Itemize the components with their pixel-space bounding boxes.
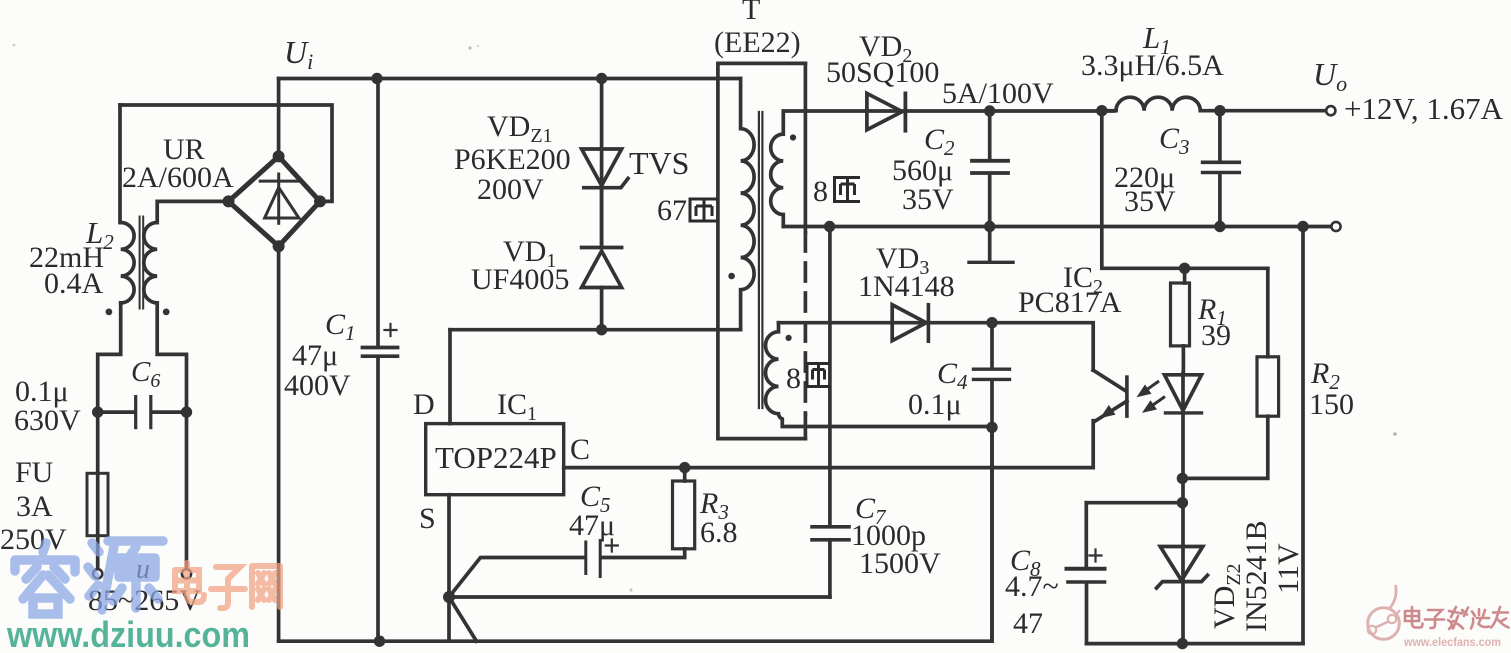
svg-text:400V: 400V bbox=[284, 369, 351, 402]
light arrow 1 bbox=[1142, 381, 1159, 393]
terminal AC input N bbox=[182, 569, 191, 578]
svg-text:3.3μH/6.5A: 3.3μH/6.5A bbox=[1081, 49, 1224, 82]
phototransistor Q IC2 bbox=[1093, 370, 1125, 390]
junction R3 top node bbox=[679, 462, 690, 473]
phase dot secondary 1 bbox=[790, 134, 796, 140]
fuse FU bbox=[96, 412, 100, 473]
svg-text:D: D bbox=[413, 388, 435, 421]
resistor R1 bbox=[1183, 268, 1187, 283]
watermark 网 bbox=[252, 566, 280, 607]
phase dot L2 left bbox=[106, 309, 113, 316]
svg-text:1N4148: 1N4148 bbox=[858, 270, 955, 303]
inductor L1 bbox=[1116, 97, 1200, 111]
svg-text:47: 47 bbox=[1013, 607, 1043, 640]
svg-text:P6KE200: P6KE200 bbox=[454, 143, 571, 176]
terminal AC input L bbox=[93, 569, 102, 578]
junction C8 top node bbox=[1177, 497, 1188, 508]
watermark 电 bbox=[175, 563, 204, 602]
capacitor C5 bbox=[584, 542, 587, 574]
junction C1 top node bbox=[371, 73, 382, 84]
junction R1 top node bbox=[1179, 263, 1190, 274]
svg-text:50SQ100: 50SQ100 bbox=[826, 56, 939, 89]
capacitor C3 bbox=[1218, 111, 1222, 161]
wire L2 right down to C6 node bbox=[157, 303, 186, 412]
svg-text:TOP224P: TOP224P bbox=[435, 440, 557, 475]
inductor L2 left winding bbox=[121, 223, 134, 303]
svg-text:T: T bbox=[742, 0, 760, 26]
junction R2 bottom node bbox=[1177, 473, 1188, 484]
optocoupler LED bbox=[1165, 375, 1202, 411]
capacitor C4 bbox=[990, 323, 994, 368]
svg-text:4.7~: 4.7~ bbox=[1005, 570, 1059, 603]
wire L2 left down to C6 node bbox=[98, 303, 121, 412]
svg-text:250V: 250V bbox=[0, 523, 67, 556]
light arrow 2 bbox=[1148, 397, 1165, 409]
junction C4 bottom node bbox=[986, 422, 997, 433]
wire secondary lower rail bbox=[783, 225, 1303, 229]
svg-text:8: 8 bbox=[813, 175, 828, 208]
capacitor C6 bbox=[98, 410, 134, 414]
svg-text:35V: 35V bbox=[902, 183, 954, 216]
watermark 源 bbox=[88, 541, 163, 610]
transformer T outline bbox=[718, 63, 806, 438]
svg-text:200V: 200V bbox=[477, 173, 544, 206]
wire input rect top bbox=[120, 105, 332, 201]
wire D pin riser bbox=[448, 330, 452, 424]
terminal output + bbox=[1326, 106, 1335, 115]
TVS diode VDZ1 bbox=[582, 149, 622, 186]
svg-text:(EE22): (EE22) bbox=[714, 26, 801, 59]
L2 core bbox=[139, 217, 141, 309]
wire S pin riser bbox=[447, 495, 451, 642]
svg-text:150: 150 bbox=[1309, 388, 1354, 421]
wire left vertex to L2 right winding bbox=[157, 201, 228, 222]
svg-text:TVS: TVS bbox=[629, 145, 689, 181]
svg-text:67: 67 bbox=[657, 194, 687, 227]
wire S diagonal to bottom rail bbox=[449, 597, 477, 641]
junction C3 bottom node bbox=[1214, 221, 1225, 232]
junction output return node bbox=[1297, 221, 1308, 232]
svg-text:47μ: 47μ bbox=[292, 339, 338, 372]
svg-text:www.elecfans.com: www.elecfans.com bbox=[1403, 635, 1501, 649]
capacitor C2 bbox=[988, 111, 992, 159]
svg-text:UF4005: UF4005 bbox=[471, 263, 569, 296]
inductor L2 right winding bbox=[144, 223, 157, 303]
junction feedback tap node bbox=[1096, 105, 1107, 116]
svg-text:+12V, 1.67A: +12V, 1.67A bbox=[1344, 91, 1504, 126]
wire VDZ1 branch riser bbox=[600, 79, 604, 248]
watermark elecfans logo bbox=[1368, 585, 1400, 639]
capacitor C8 bbox=[1084, 503, 1088, 567]
junction C2 bottom node bbox=[984, 221, 995, 232]
svg-text:35V: 35V bbox=[1124, 185, 1176, 218]
svg-text:C: C bbox=[570, 433, 590, 466]
bridge rectifier UR diamond bbox=[229, 156, 321, 246]
junction C6 left node bbox=[92, 406, 103, 417]
watermark 容 bbox=[15, 543, 75, 614]
svg-text:www.dziuu.com: www.dziuu.com bbox=[6, 614, 250, 653]
svg-text:630V: 630V bbox=[14, 404, 81, 437]
svg-text:47μ: 47μ bbox=[569, 509, 615, 542]
node S bbox=[443, 591, 455, 603]
svg-text:39: 39 bbox=[1201, 319, 1231, 352]
diode VD1 bbox=[582, 246, 622, 250]
junction bridge right vertex bbox=[314, 195, 326, 207]
wire C8 top link bbox=[1086, 501, 1182, 505]
svg-text:8: 8 bbox=[786, 362, 801, 395]
junction C2 top node bbox=[984, 105, 995, 116]
svg-text:S: S bbox=[419, 502, 436, 535]
junction bridge bottom vertex bbox=[273, 240, 285, 252]
wire primary bottom rail bbox=[279, 427, 992, 641]
wire S to C7 bbox=[449, 595, 830, 599]
ground stub bbox=[988, 227, 992, 262]
wire VD3 node to collector bbox=[992, 323, 1093, 371]
diode VD3 bbox=[892, 305, 926, 341]
wire bias return bbox=[990, 427, 994, 641]
capacitor C1 bbox=[376, 79, 380, 346]
phase dot L2 right bbox=[163, 309, 170, 316]
svg-text:1500V: 1500V bbox=[859, 547, 941, 580]
resistor R3 bbox=[673, 481, 695, 549]
wire C pin rail bbox=[564, 466, 1093, 470]
scan specks bbox=[468, 46, 471, 49]
svg-text:FU: FU bbox=[15, 456, 54, 489]
svg-text:2A/600A: 2A/600A bbox=[122, 161, 234, 194]
resistor R2 bbox=[1266, 268, 1270, 357]
svg-text:11V: 11V bbox=[1272, 543, 1305, 594]
glyph 匝 of 67匝 bbox=[689, 199, 718, 221]
svg-text:IN5241B: IN5241B bbox=[1240, 520, 1273, 632]
wire feedback riser bbox=[1102, 111, 1268, 269]
wire bridge top riser bbox=[277, 79, 281, 157]
wire rect left edge bbox=[118, 105, 122, 223]
transformer secondary 2 bbox=[766, 323, 993, 427]
phase dot primary bbox=[728, 273, 735, 280]
wire S diagonal to C5 bbox=[449, 558, 584, 598]
junction bridge top vertex bbox=[273, 150, 285, 162]
junction C6 right node bbox=[181, 406, 192, 417]
transformer core bbox=[758, 112, 760, 408]
svg-text:0.1μ: 0.1μ bbox=[908, 388, 962, 421]
wire VD3 anode bbox=[779, 321, 893, 325]
wire bridge bottom riser bbox=[277, 246, 281, 641]
transformer primary winding bbox=[741, 79, 755, 330]
IC1 TOP224P box bbox=[426, 424, 564, 495]
phase dot secondary 2 bbox=[786, 335, 792, 341]
wire D rail bbox=[450, 328, 741, 332]
svg-text:PC817A: PC817A bbox=[1018, 286, 1122, 319]
svg-text:0.4A: 0.4A bbox=[44, 267, 104, 300]
wire secondary ground rail bbox=[1087, 642, 1304, 646]
transformer secondary 1 bbox=[771, 111, 867, 227]
junction VDZ2 bottom node bbox=[1177, 638, 1188, 649]
wire right input branch bbox=[185, 412, 189, 569]
capacitor C7 bbox=[812, 525, 849, 529]
watermark 子 bbox=[211, 567, 245, 608]
junction VD1 anode node bbox=[596, 324, 607, 335]
diode VD2 bbox=[867, 93, 902, 129]
wire Ui top rail bbox=[279, 77, 741, 81]
junction VD3 cathode node bbox=[986, 317, 997, 328]
bridge inner diode bbox=[277, 174, 280, 223]
junction C1 bottom node bbox=[374, 636, 385, 647]
zener VDZ2 bbox=[1160, 547, 1203, 581]
emitter arrowhead bbox=[1100, 405, 1116, 418]
terminal output - bbox=[1331, 222, 1340, 231]
junction C3 top node bbox=[1214, 105, 1225, 116]
watermark 电子发烧友 bbox=[1405, 607, 1509, 629]
junction C7 top node bbox=[824, 221, 835, 232]
junction VDZ1 top node bbox=[596, 73, 607, 84]
svg-text:6.8: 6.8 bbox=[700, 516, 738, 549]
svg-text:5A/100V: 5A/100V bbox=[942, 77, 1054, 110]
svg-text:3A: 3A bbox=[16, 490, 53, 523]
wire output return riser bbox=[1301, 227, 1305, 644]
junction bridge left vertex bbox=[223, 195, 235, 207]
